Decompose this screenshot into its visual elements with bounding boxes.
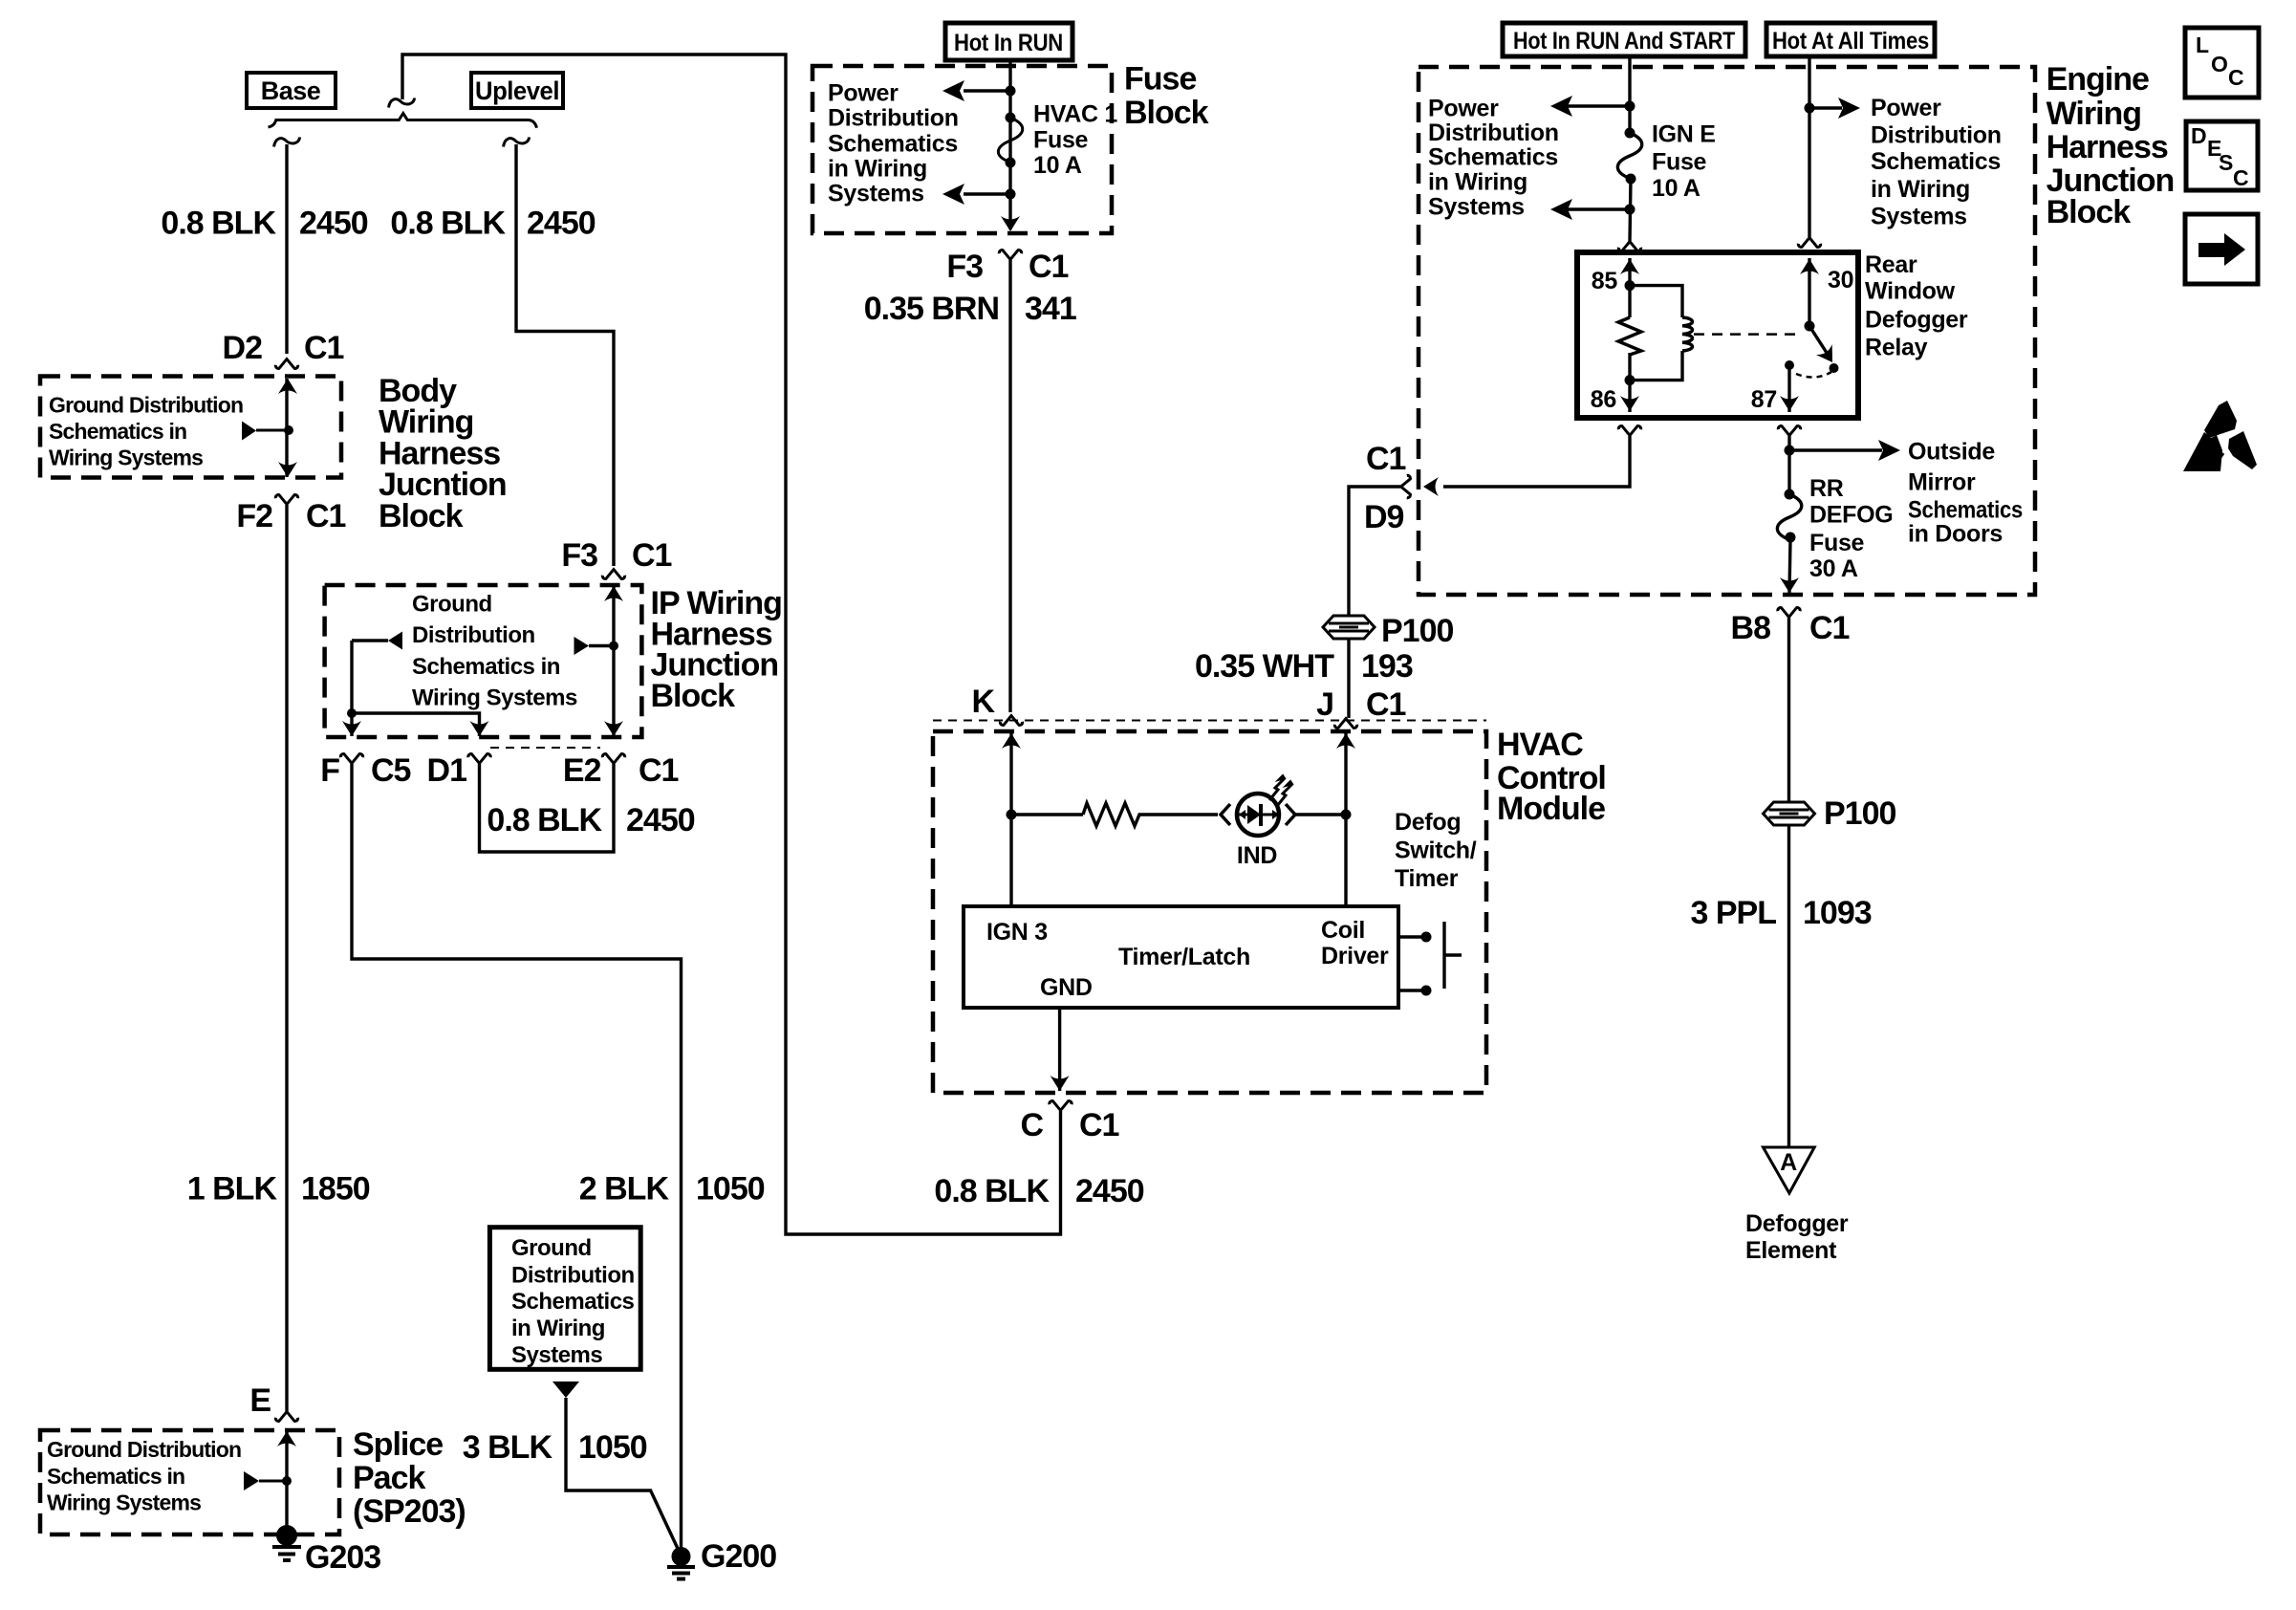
- Rear window defogger relay box: [1577, 252, 1858, 418]
- svg-text:Schematics in: Schematics in: [49, 419, 186, 444]
- off-page triangle (IP right): [574, 637, 590, 655]
- wire: IP block right leg F3 to E2: [612, 586, 615, 736]
- svg-text:Engine: Engine: [2047, 61, 2149, 98]
- svg-text:Schematics: Schematics: [1871, 148, 2001, 175]
- junction dots: HVAC IGN3 / coil driver net: [1007, 810, 1017, 820]
- svg-text:Switch/: Switch/: [1395, 838, 1477, 864]
- J mark: [1334, 719, 1356, 729]
- Ground distribution solid box (bottom middle): [489, 1228, 640, 1370]
- body box down arrow: [278, 462, 297, 477]
- svg-text:L: L: [2196, 33, 2209, 57]
- HVAC GND down arrow: [1051, 1076, 1070, 1091]
- LED internals: diode: [1239, 814, 1278, 816]
- svg-text:in Wiring: in Wiring: [511, 1316, 605, 1341]
- wire: IP block ground branch left: [352, 639, 388, 642]
- svg-text:10 A: 10 A: [1652, 175, 1700, 202]
- break squiggles: [389, 98, 415, 108]
- junction dots: relay switch pivot and contacts: [1805, 321, 1815, 332]
- relay coil: [1630, 286, 1682, 381]
- Base box: [247, 73, 336, 108]
- F3 C1 mark (IP): [602, 570, 624, 579]
- fuse block HVAC1 squiggle: [998, 118, 1022, 163]
- engine box bottom down arrow: [1780, 577, 1799, 593]
- svg-text:HVAC: HVAC: [1497, 727, 1583, 763]
- 85 mark above relay: [1618, 242, 1640, 251]
- relay coil dashed link: [1694, 333, 1803, 336]
- off-page triangle (body box): [256, 429, 289, 432]
- svg-text:1850: 1850: [301, 1171, 370, 1207]
- relay switch arm arrowhead: [1816, 344, 1840, 367]
- svg-text:Schematics: Schematics: [511, 1289, 635, 1315]
- svg-text:E2: E2: [563, 752, 601, 789]
- IP wiring harness junction dashed box: [325, 585, 642, 737]
- svg-text:C1: C1: [306, 498, 346, 534]
- svg-text:2450: 2450: [626, 802, 695, 838]
- wire: IGN E feed: [1628, 56, 1631, 133]
- svg-text:Systems: Systems: [1428, 193, 1525, 220]
- junction dot: splice pack SP203: [282, 1476, 292, 1486]
- svg-text:Block: Block: [2047, 194, 2132, 230]
- wire: IGN E below fuse: [1630, 179, 1631, 241]
- wire: Hot At All Times feed: [1808, 56, 1810, 237]
- svg-text:P100: P100: [1381, 613, 1453, 649]
- relay 85 leg: [1628, 258, 1631, 317]
- svg-text:2450: 2450: [299, 206, 368, 242]
- svg-text:O: O: [2211, 52, 2227, 76]
- svg-text:A: A: [1780, 1149, 1797, 1176]
- svg-text:HVAC 1: HVAC 1: [1033, 101, 1117, 128]
- svg-text:0.35 BRN: 0.35 BRN: [864, 291, 999, 327]
- brace under Base/Uplevel: [269, 114, 537, 128]
- svg-text:Block: Block: [1124, 95, 1209, 131]
- svg-text:Window: Window: [1865, 278, 1956, 305]
- svg-text:Timer/Latch: Timer/Latch: [1118, 944, 1250, 970]
- svg-text:in Wiring: in Wiring: [828, 155, 927, 182]
- engine box left exit arrow: [1423, 477, 1439, 496]
- big arrowheads: fuse block left arrows: [942, 80, 964, 101]
- svg-text:Schematics: Schematics: [1908, 496, 2023, 523]
- svg-text:C5: C5: [371, 752, 411, 789]
- svg-text:Distribution: Distribution: [1871, 121, 2002, 148]
- svg-text:C1: C1: [1079, 1107, 1119, 1143]
- D1 mark: [468, 754, 490, 764]
- svg-text:Distribution: Distribution: [828, 104, 959, 131]
- svg-text:GND: GND: [1040, 974, 1093, 1001]
- svg-text:Ground Distribution: Ground Distribution: [49, 393, 243, 418]
- LED chevron left: [1221, 804, 1230, 825]
- svg-text:1050: 1050: [578, 1429, 647, 1466]
- 86 mark below relay: [1618, 426, 1640, 436]
- svg-text:Outside: Outside: [1908, 438, 1995, 465]
- svg-text:Distribution: Distribution: [412, 622, 535, 648]
- ground G203 bars: [272, 1547, 301, 1560]
- wire: LED to J: [1294, 813, 1346, 816]
- outside mirror right arrow: [1878, 440, 1900, 461]
- wire: J up to P100 and D9: [1347, 640, 1350, 718]
- svg-text:Relay: Relay: [1865, 335, 1928, 361]
- svg-text:C1: C1: [1366, 686, 1406, 723]
- wire: 3 BLK from ground box to G200: [566, 1398, 680, 1553]
- svg-text:Systems: Systems: [1871, 203, 1967, 229]
- E2 C1 mark: [602, 754, 624, 764]
- svg-text:Power: Power: [828, 79, 899, 106]
- svg-text:S: S: [2219, 150, 2233, 175]
- Hot At All Times box: [1766, 23, 1935, 56]
- Splice pack dashed box: [40, 1430, 339, 1534]
- fuse RR DEFOG squiggle: [1777, 494, 1801, 540]
- svg-text:Splice: Splice: [353, 1426, 443, 1463]
- relay 30 leg: [1808, 258, 1810, 326]
- LED indicator circle: [1237, 794, 1279, 836]
- wire: HVAC GND leg: [1058, 1008, 1061, 1091]
- LED emission arrows: [1269, 778, 1292, 806]
- wire: Base branch down to D2: [285, 144, 288, 354]
- Hot In RUN And START box: [1503, 23, 1745, 56]
- wire: D9 arrow into engine box from relay 86: [1443, 436, 1630, 487]
- wire: P100 to defogger element: [1787, 825, 1790, 1147]
- svg-text:G200: G200: [701, 1538, 776, 1575]
- relay switch arm: [1809, 326, 1827, 353]
- svg-text:10 A: 10 A: [1033, 152, 1082, 179]
- svg-text:C1: C1: [639, 752, 679, 789]
- Fuse Block dashed box: [812, 66, 1112, 233]
- wire: outside mirror branch: [1789, 448, 1882, 451]
- svg-text:2450: 2450: [527, 206, 596, 242]
- wire: Uplevel branch with jog to F3: [516, 144, 614, 566]
- svg-text:30 A: 30 A: [1809, 555, 1858, 582]
- Uplevel box: [471, 73, 563, 108]
- right arrow box: [2185, 214, 2258, 284]
- svg-text:Hot In RUN: Hot In RUN: [954, 30, 1063, 56]
- svg-text:2 BLK: 2 BLK: [579, 1171, 670, 1207]
- wire: B8 to P100: [1787, 618, 1790, 802]
- svg-text:Defogger: Defogger: [1745, 1210, 1849, 1237]
- svg-text:2450: 2450: [1075, 1173, 1144, 1209]
- wire: fuse block arrow lines: [964, 91, 1010, 194]
- engine box left arrows: [1550, 96, 1572, 117]
- svg-text:P100: P100: [1824, 795, 1895, 832]
- svg-text:Hot At All Times: Hot At All Times: [1772, 28, 1929, 54]
- svg-text:Hot In RUN And START: Hot In RUN And START: [1513, 28, 1735, 54]
- svg-text:C1: C1: [632, 537, 672, 574]
- svg-text:C: C: [2228, 65, 2243, 90]
- wire: top ground bus from brace to HVAC C pigtail: [402, 54, 1061, 1234]
- svg-text:3 PPL: 3 PPL: [1691, 895, 1777, 931]
- svg-text:Defog: Defog: [1395, 809, 1461, 836]
- junction dots: IP box ground taps: [347, 708, 357, 718]
- svg-text:Power: Power: [1428, 95, 1499, 121]
- P100 grommet (D9 path): [1323, 616, 1375, 639]
- off-page triangle (3 BLK, points down): [552, 1382, 579, 1398]
- svg-text:D2: D2: [223, 330, 263, 366]
- Hot In RUN box: [945, 23, 1072, 60]
- LOC box: [2185, 28, 2259, 98]
- DESC box: [2186, 121, 2258, 190]
- F C5 mark: [340, 754, 362, 764]
- svg-text:341: 341: [1025, 291, 1076, 327]
- HVAC control module dashed box: [933, 731, 1486, 1093]
- svg-text:C1: C1: [1366, 441, 1406, 477]
- svg-text:IGN 3: IGN 3: [986, 919, 1048, 946]
- svg-text:Systems: Systems: [511, 1342, 602, 1368]
- switch bar: [1444, 922, 1462, 989]
- svg-text:0.8 BLK: 0.8 BLK: [934, 1173, 1050, 1209]
- wire: splice pack internal: [285, 1431, 288, 1534]
- Body wiring harness junction dashed box: [40, 377, 341, 478]
- wire: engine right arrow: [1809, 106, 1842, 109]
- engine box right arrow: [1838, 98, 1860, 119]
- wire: HVAC resistor-LED row: [1011, 813, 1083, 816]
- svg-text:Block: Block: [651, 678, 736, 714]
- HVAC connector C1 thin dashed line: [933, 720, 1486, 722]
- svg-text:C1: C1: [304, 330, 344, 366]
- svg-text:Schematics: Schematics: [1428, 144, 1558, 171]
- wire: IP triangle link right: [589, 644, 614, 647]
- svg-text:Schematics: Schematics: [828, 130, 958, 157]
- svg-text:in Doors: in Doors: [1908, 520, 2003, 547]
- wire: HVAC K leg: [1009, 733, 1012, 906]
- Engine wiring harness junction dashed box: [1419, 67, 2035, 595]
- svg-text:3 BLK: 3 BLK: [463, 1429, 553, 1466]
- svg-text:(SP203): (SP203): [353, 1493, 466, 1530]
- svg-text:Block: Block: [379, 498, 464, 534]
- svg-text:Schematics in: Schematics in: [47, 1464, 184, 1489]
- svg-text:Wiring Systems: Wiring Systems: [412, 685, 577, 711]
- svg-text:C1: C1: [1809, 610, 1850, 646]
- svg-text:Schematics in: Schematics in: [412, 654, 560, 680]
- svg-text:G203: G203: [305, 1539, 380, 1576]
- svg-text:193: 193: [1361, 648, 1413, 685]
- junction dot: Hot At All Times tap: [1805, 103, 1815, 114]
- relay 87 leg: [1787, 368, 1790, 412]
- relay switch travel arc: [1796, 372, 1831, 378]
- svg-text:F2: F2: [236, 498, 272, 534]
- svg-text:D: D: [2191, 123, 2206, 148]
- svg-text:1093: 1093: [1803, 895, 1872, 931]
- E mark: [275, 1412, 297, 1422]
- svg-text:C: C: [1020, 1107, 1043, 1143]
- svg-text:C: C: [2233, 165, 2248, 190]
- svg-text:Driver: Driver: [1321, 943, 1389, 969]
- C C1 mark: [1050, 1101, 1072, 1111]
- svg-text:D1: D1: [427, 752, 467, 789]
- svg-text:in Wiring: in Wiring: [1871, 176, 1970, 203]
- off-page triangle (splice): [259, 1480, 287, 1483]
- junction dots: RR DEFOG fuse net: [1785, 446, 1795, 456]
- resistor R (HVAC): [1083, 803, 1218, 826]
- svg-text:Wiring Systems: Wiring Systems: [47, 1490, 201, 1515]
- svg-text:Pack: Pack: [353, 1460, 425, 1496]
- 87 mark below relay: [1778, 426, 1800, 436]
- svg-text:Fuse: Fuse: [1652, 149, 1707, 176]
- svg-text:RR: RR: [1809, 475, 1844, 502]
- junction dots: IGN E fuse net: [1625, 101, 1635, 112]
- K mark: [1000, 716, 1022, 726]
- 30 mark above relay: [1798, 238, 1820, 248]
- svg-text:Ground: Ground: [412, 591, 492, 617]
- svg-text:F3: F3: [561, 537, 597, 574]
- svg-text:Base: Base: [261, 76, 321, 105]
- svg-text:F: F: [320, 752, 339, 789]
- svg-text:F3: F3: [946, 249, 983, 285]
- svg-text:87: 87: [1751, 386, 1777, 413]
- svg-text:IND: IND: [1237, 842, 1277, 869]
- svg-text:Rear: Rear: [1865, 251, 1917, 278]
- svg-text:Harness: Harness: [2047, 129, 2168, 165]
- F2 C1 mark: [275, 495, 297, 505]
- svg-text:Wiring Systems: Wiring Systems: [49, 446, 203, 470]
- svg-text:Mirror: Mirror: [1908, 468, 1976, 495]
- ground G203 dot: [276, 1525, 297, 1546]
- svg-text:DEFOG: DEFOG: [1809, 502, 1893, 529]
- D2 C1 mark: [275, 359, 297, 369]
- svg-text:Defogger: Defogger: [1865, 306, 1968, 333]
- svg-text:Ground Distribution: Ground Distribution: [47, 1437, 241, 1462]
- svg-text:Timer: Timer: [1395, 865, 1459, 892]
- svg-text:D9: D9: [1364, 499, 1404, 535]
- svg-text:C1: C1: [1029, 249, 1069, 285]
- arrow box arrow: [2199, 243, 2224, 257]
- relay down arrows: [1620, 396, 1639, 411]
- svg-text:0.8 BLK: 0.8 BLK: [487, 802, 602, 838]
- P100 grommet (B8 path): [1764, 802, 1815, 825]
- LED chevron right: [1286, 804, 1295, 825]
- junction dots: fuse block HVAC1 fuse net: [1006, 86, 1016, 97]
- wire: engine left arrows: [1568, 106, 1630, 209]
- svg-text:Element: Element: [1745, 1237, 1837, 1264]
- Defogger element triangle: [1764, 1147, 1815, 1193]
- wire: 86 below relay handled above; 87 below relay: [1787, 436, 1790, 494]
- ground G200 dot: [672, 1547, 691, 1566]
- IP box up arrow (F3): [604, 586, 623, 601]
- svg-text:K: K: [971, 684, 995, 720]
- C1 D9 mark: [1401, 475, 1411, 497]
- svg-text:Distribution: Distribution: [511, 1263, 635, 1289]
- svg-text:Wiring: Wiring: [2047, 96, 2141, 132]
- resistor (relay): [1618, 317, 1641, 355]
- fuse block down arrow: [1001, 216, 1020, 231]
- wire: Hot In RUN fuse feed: [1008, 60, 1011, 229]
- junction dots: relay coil terminals: [1625, 280, 1635, 291]
- svg-text:0.35 WHT: 0.35 WHT: [1195, 648, 1334, 685]
- svg-text:1 BLK: 1 BLK: [187, 1171, 278, 1207]
- svg-text:Distribution: Distribution: [1428, 120, 1559, 146]
- svg-text:J: J: [1316, 686, 1333, 723]
- svg-text:0.8 BLK: 0.8 BLK: [390, 206, 506, 242]
- svg-text:Fuse: Fuse: [1809, 530, 1865, 556]
- svg-text:85: 85: [1592, 268, 1618, 294]
- svg-text:1050: 1050: [696, 1171, 765, 1207]
- junction dot: body box ground tap: [284, 425, 293, 435]
- splice box up arrow: [277, 1431, 296, 1447]
- body box up arrow: [278, 379, 297, 394]
- F3 C1 mark (fuse block): [999, 250, 1021, 260]
- wire: E2 loop 0.8 BLK 2450: [480, 764, 615, 852]
- svg-text:Fuse: Fuse: [1033, 127, 1089, 154]
- svg-text:0.8 BLK: 0.8 BLK: [161, 206, 276, 242]
- svg-text:B8: B8: [1731, 610, 1771, 646]
- HVAC K J up arrows: [1002, 733, 1021, 749]
- svg-text:86: 86: [1591, 386, 1616, 413]
- wire: F C5 down right jog to G200 (2 BLK): [352, 764, 682, 1551]
- ground G200 bars: [667, 1567, 695, 1579]
- svg-text:Ground: Ground: [511, 1235, 592, 1261]
- wire: F3 to K 0.35 BRN 341: [1008, 260, 1011, 712]
- junction dots: defog switch contacts: [1421, 932, 1432, 943]
- wire: coil driver terminals: [1398, 937, 1426, 990]
- svg-text:E: E: [249, 1382, 271, 1419]
- svg-text:Coil: Coil: [1321, 917, 1365, 944]
- svg-text:Module: Module: [1497, 791, 1605, 827]
- svg-text:30: 30: [1828, 267, 1853, 294]
- IP box down arrows: [342, 721, 361, 736]
- off-page triangle (IP left): [388, 632, 402, 650]
- D1-E2 connector thin dashed line: [490, 747, 600, 749]
- wire: Base branch through Body box to F2 and down to E: [285, 379, 288, 477]
- fuse IGN E squiggle: [1617, 133, 1641, 179]
- HVAC timer/latch inner box: [964, 906, 1398, 1008]
- svg-text:Systems: Systems: [828, 180, 924, 207]
- svg-text:in Wiring: in Wiring: [1428, 168, 1527, 195]
- svg-text:Fuse: Fuse: [1124, 61, 1196, 98]
- svg-text:IGN E: IGN E: [1652, 121, 1716, 148]
- svg-text:Uplevel: Uplevel: [475, 76, 559, 105]
- wire: HVAC J leg: [1344, 733, 1347, 906]
- relay up arrows: [1620, 259, 1639, 274]
- ESD warning symbol: [2183, 401, 2257, 471]
- B8 C1 mark: [1778, 608, 1800, 618]
- svg-text:Power: Power: [1871, 95, 1941, 121]
